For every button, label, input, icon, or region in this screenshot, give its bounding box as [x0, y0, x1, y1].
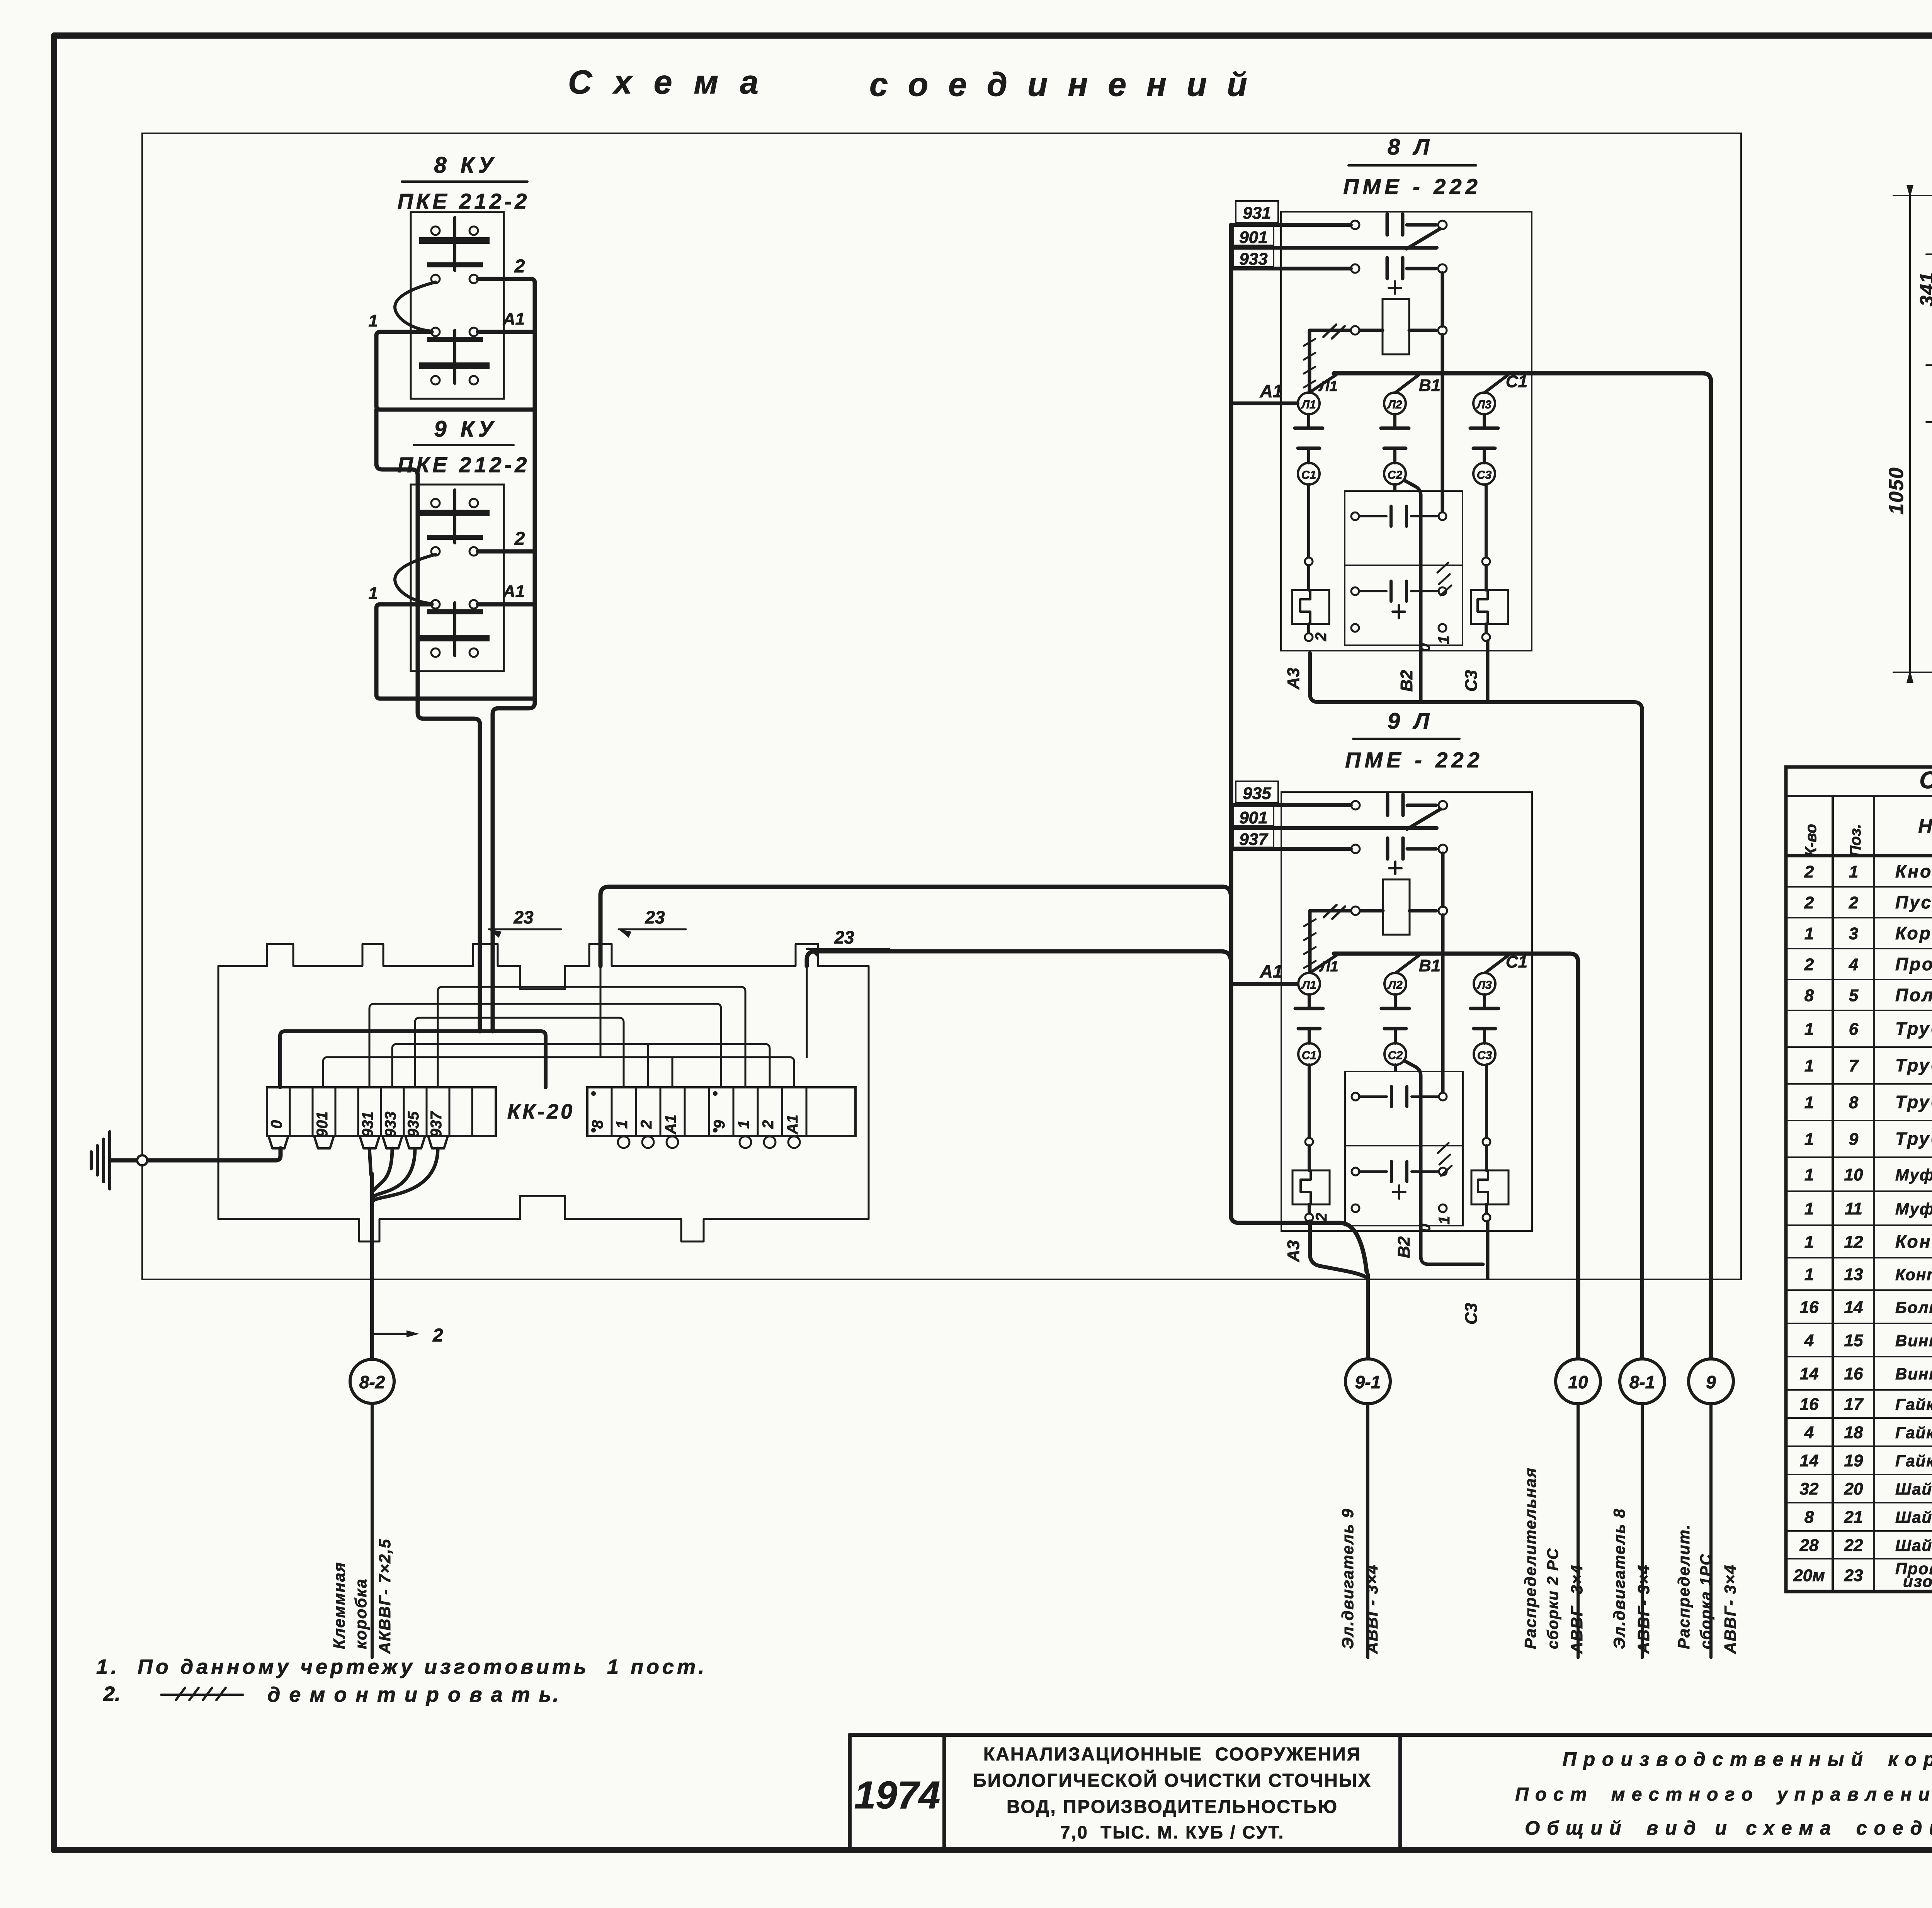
svg-text:3: 3: [1849, 924, 1858, 943]
svg-text:1050: 1050: [1885, 467, 1908, 515]
svg-text:7: 7: [1849, 1056, 1859, 1075]
svg-text:коробка: коробка: [352, 1578, 370, 1649]
svg-text:935: 935: [1243, 784, 1271, 803]
svg-text:ВОД, ПРОИЗВОДИТЕЛЬНОСТЬЮ: ВОД, ПРОИЗВОДИТЕЛЬНОСТЬЮ: [1007, 1797, 1338, 1817]
svg-text:0: 0: [268, 1120, 285, 1129]
svg-text:16: 16: [1800, 1395, 1819, 1414]
svg-text:4: 4: [1849, 955, 1858, 974]
svg-text:с о е д и н е н и й: с о е д и н е н и й: [869, 66, 1253, 103]
svg-text:341: 341: [1916, 272, 1932, 306]
svg-text:Труба: Труба: [1895, 1055, 1932, 1075]
svg-text:А3: А3: [1284, 1240, 1303, 1262]
svg-text:9: 9: [1849, 1130, 1859, 1149]
svg-text:937: 937: [428, 1111, 445, 1137]
svg-text:Эл.двигатель 8: Эл.двигатель 8: [1610, 1508, 1628, 1649]
svg-text:Муфта переходная Гост 8957-59: Муфта переходная Гост 8957-59: [1895, 1200, 1932, 1218]
svg-text:1: 1: [1804, 1165, 1814, 1184]
svg-text:Л1: Л1: [1319, 959, 1338, 975]
svg-text:1: 1: [1804, 1265, 1814, 1284]
svg-text:А1: А1: [784, 1114, 801, 1134]
svg-text:О б щ и й в и д и с х е: О б щ и й в и д и с х е м а с о е д и н …: [1525, 1817, 1932, 1839]
svg-text:ПМЕ - 222: ПМЕ - 222: [1345, 748, 1483, 772]
svg-text:2.: 2.: [103, 1682, 121, 1706]
svg-text:Клеммная: Клеммная: [330, 1562, 348, 1649]
svg-text:8-2: 8-2: [359, 1372, 385, 1392]
svg-text:А1: А1: [1260, 381, 1283, 401]
svg-text:Гайка М 5 ГОСТ 5915- 70: Гайка М 5 ГОСТ 5915- 70: [1895, 1452, 1932, 1470]
svg-text:14: 14: [1800, 1451, 1819, 1470]
svg-text:Контргайка ГОСТ 8961-59: Контргайка ГОСТ 8961-59: [1895, 1231, 1932, 1252]
svg-text:В2: В2: [1395, 1236, 1413, 1258]
svg-text:2: 2: [514, 256, 525, 277]
svg-text:19: 19: [1844, 1451, 1863, 1470]
svg-text:23: 23: [645, 907, 665, 927]
svg-text:С3: С3: [1462, 1303, 1481, 1325]
svg-text:1: 1: [369, 311, 378, 330]
svg-text:В1: В1: [1419, 956, 1440, 975]
svg-text:Эл.двигатель 9: Эл.двигатель 9: [1338, 1508, 1357, 1649]
svg-text:5: 5: [1849, 986, 1859, 1005]
svg-text:А3: А3: [1284, 668, 1303, 690]
svg-text:БИОЛОГИЧЕСКОЙ ОЧИСТКИ СТОЧНЫХ: БИОЛОГИЧЕСКОЙ ОЧИСТКИ СТОЧНЫХ: [973, 1770, 1372, 1791]
svg-text:АКВВГ- 7×2,5: АКВВГ- 7×2,5: [376, 1538, 394, 1654]
svg-text:Болт М 6 × 20 ГОСТ 7798- 70: Болт М 6 × 20 ГОСТ 7798- 70: [1895, 1298, 1932, 1316]
svg-text:Кнопка управления: Кнопка управления: [1895, 861, 1932, 881]
svg-text:С1: С1: [1301, 469, 1316, 481]
svg-text:С3: С3: [1477, 469, 1492, 481]
svg-text:933: 933: [1239, 250, 1267, 269]
svg-text:9: 9: [1706, 1372, 1716, 1392]
svg-text:Гайка М 6. ГОСТ 5915- 70: Гайка М 6. ГОСТ 5915- 70: [1895, 1395, 1932, 1413]
svg-text:935: 935: [405, 1111, 422, 1137]
svg-text:16: 16: [1844, 1364, 1863, 1383]
svg-text:2: 2: [760, 1120, 777, 1129]
svg-text:22: 22: [1844, 1536, 1863, 1555]
svg-text:4: 4: [1804, 1423, 1814, 1442]
svg-text:С п е ц и ф и к а ц и я: С п е ц и ф и к а ц и я: [1919, 767, 1932, 794]
svg-text:1. По данному чертежу изготов: 1. По данному чертежу изготовить 1 пост.: [96, 1655, 707, 1678]
svg-text:Труба: Труба: [1895, 1019, 1932, 1039]
svg-text:14: 14: [1800, 1364, 1819, 1383]
svg-text:933: 933: [382, 1112, 399, 1138]
svg-text:1: 1: [735, 1120, 752, 1129]
svg-text:14: 14: [1844, 1298, 1863, 1317]
svg-text:0: 0: [1416, 643, 1433, 652]
svg-text:АВВГ- 3×4: АВВГ- 3×4: [1634, 1564, 1653, 1654]
svg-text:1: 1: [1804, 1233, 1814, 1252]
svg-text:9-1: 9-1: [1355, 1372, 1381, 1392]
svg-text:С х е м а: С х е м а: [568, 64, 765, 101]
svg-text:2: 2: [1804, 862, 1814, 881]
svg-text:20: 20: [1844, 1479, 1863, 1498]
svg-text:28: 28: [1799, 1536, 1819, 1555]
svg-text:АВВГ- 3×4: АВВГ- 3×4: [1721, 1564, 1739, 1654]
svg-text:Винт М 5 × 16 ГОСТ 17473-72: Винт М 5 × 16 ГОСТ 17473-72: [1895, 1365, 1932, 1383]
svg-text:2: 2: [432, 1325, 443, 1346]
svg-text:1974: 1974: [854, 1774, 940, 1817]
svg-text:ПМЕ - 222: ПМЕ - 222: [1343, 174, 1481, 199]
svg-text:12: 12: [1844, 1233, 1863, 1252]
svg-text:Контргайка ГОСТ 8961- 59: Контргайка ГОСТ 8961- 59: [1895, 1265, 1932, 1284]
svg-text:13: 13: [1844, 1265, 1863, 1284]
svg-text:Полоса монтажная: Полоса монтажная: [1895, 985, 1932, 1005]
svg-text:С3: С3: [1462, 670, 1481, 692]
svg-text:15: 15: [1844, 1331, 1863, 1350]
svg-text:8: 8: [1804, 1508, 1814, 1527]
svg-text:П о с т м е с т н о г о: П о с т м е с т н о г о у п р а в л е н …: [1515, 1784, 1932, 1805]
svg-text:1: 1: [369, 584, 378, 603]
svg-text:С2: С2: [1388, 469, 1403, 481]
svg-text:901: 901: [314, 1112, 331, 1138]
svg-text:Шайба 6 ГОСТ 11371- 70: Шайба 6 ГОСТ 11371- 70: [1895, 1480, 1932, 1498]
svg-text:937: 937: [1239, 830, 1269, 849]
svg-text:В2: В2: [1397, 670, 1416, 692]
svg-text:1: 1: [1804, 1056, 1814, 1075]
svg-text:изолированный: изолированный: [1903, 1572, 1932, 1590]
svg-text:Н а и м е н о в а н и е: Н а и м е н о в а н и е: [1918, 815, 1932, 837]
svg-text:901: 901: [1239, 808, 1267, 827]
svg-text:6: 6: [1849, 1020, 1859, 1039]
svg-text:23: 23: [1844, 1566, 1863, 1585]
svg-text:2: 2: [1804, 955, 1814, 974]
svg-text:901: 901: [1239, 228, 1267, 247]
svg-text:В1: В1: [1419, 376, 1440, 395]
svg-text:АВВГ- 3×4: АВВГ- 3×4: [1363, 1564, 1381, 1654]
svg-text:Л1: Л1: [1318, 378, 1337, 395]
svg-text:А1: А1: [503, 309, 525, 328]
svg-text:8 Л: 8 Л: [1388, 134, 1433, 160]
svg-text:1: 1: [1435, 636, 1452, 644]
svg-text:Винт М 8 × 16 ГОСТ 17473-72: Винт М 8 × 16 ГОСТ 17473-72: [1895, 1332, 1932, 1350]
svg-text:32: 32: [1800, 1479, 1819, 1498]
svg-text:ПКЕ 212-2: ПКЕ 212-2: [398, 189, 530, 213]
svg-text:2: 2: [1804, 893, 1814, 912]
svg-text:1: 1: [1849, 862, 1858, 881]
svg-text:10: 10: [1568, 1372, 1588, 1392]
svg-text:2: 2: [1849, 893, 1859, 912]
svg-text:сборки 2 РС: сборки 2 РС: [1544, 1547, 1561, 1649]
svg-text:1: 1: [614, 1120, 631, 1129]
svg-text:8: 8: [1804, 986, 1814, 1005]
svg-text:А1: А1: [1260, 961, 1283, 981]
svg-text:АВВГ- 3×4: АВВГ- 3×4: [1568, 1564, 1586, 1654]
svg-text:23: 23: [513, 907, 534, 927]
svg-text:КК-20: КК-20: [507, 1100, 575, 1123]
svg-text:П р о и з в о д с т в е н н ы: П р о и з в о д с т в е н н ы й к о р п …: [1563, 1748, 1932, 1770]
svg-text:Шайба 5 ГОСТ 11371- 70: Шайба 5 ГОСТ 11371- 70: [1895, 1536, 1932, 1554]
svg-text:9 Л: 9 Л: [1388, 709, 1433, 734]
svg-text:Пускатель магнитный: Пускатель магнитный: [1895, 892, 1932, 912]
svg-text:8: 8: [1849, 1093, 1859, 1112]
svg-text:18: 18: [1844, 1423, 1863, 1442]
svg-text:Коробка клеммная: Коробка клеммная: [1895, 923, 1932, 943]
svg-text:Труба: Труба: [1895, 1129, 1932, 1149]
svg-text:Гайка М 8 ГОСТ 5915 - 70: Гайка М 8 ГОСТ 5915 - 70: [1895, 1423, 1932, 1442]
svg-text:А1: А1: [503, 582, 525, 601]
svg-text:Шайба 8 ГОСТ 11371- 70: Шайба 8 ГОСТ 11371- 70: [1895, 1508, 1932, 1526]
svg-text:Л3: Л3: [1476, 398, 1492, 411]
svg-text:11: 11: [1845, 1199, 1862, 1218]
svg-text:1: 1: [1804, 1020, 1814, 1039]
svg-text:1: 1: [1804, 1199, 1814, 1218]
svg-text:Труба: Труба: [1895, 1092, 1932, 1112]
svg-text:сборка 1РС: сборка 1РС: [1697, 1553, 1714, 1649]
svg-text:Распределительная: Распределительная: [1521, 1467, 1539, 1649]
svg-text:931: 931: [359, 1112, 376, 1138]
svg-text:4: 4: [1804, 1331, 1814, 1350]
svg-text:Л1: Л1: [1301, 398, 1316, 411]
svg-text:931: 931: [1243, 204, 1271, 223]
svg-text:А1: А1: [662, 1114, 679, 1134]
svg-text:Поз.: Поз.: [1847, 824, 1864, 857]
svg-text:2: 2: [514, 529, 525, 549]
svg-text:16: 16: [1800, 1298, 1819, 1317]
svg-text:20м: 20м: [1793, 1566, 1825, 1585]
svg-text:2: 2: [638, 1120, 655, 1129]
svg-text:Распределит.: Распределит.: [1675, 1524, 1693, 1649]
svg-text:8-1: 8-1: [1629, 1372, 1655, 1392]
svg-text:1: 1: [1804, 1093, 1814, 1112]
svg-text:17: 17: [1844, 1395, 1864, 1414]
svg-text:8: 8: [589, 1120, 606, 1129]
svg-text:9 КУ: 9 КУ: [434, 417, 497, 442]
svg-text:д е м о н т и р о в а т ь.: д е м о н т и р о в а т ь.: [267, 1683, 560, 1706]
svg-text:КАНАЛИЗАЦИОННЫЕ СООРУЖЕНИЯ: КАНАЛИЗАЦИОННЫЕ СООРУЖЕНИЯ: [983, 1744, 1361, 1765]
svg-text:Профиль монтажный: Профиль монтажный: [1895, 954, 1932, 974]
svg-text:Муфта переходная ГОСТ 8957 59: Муфта переходная ГОСТ 8957 59: [1895, 1166, 1932, 1184]
svg-text:9: 9: [711, 1120, 728, 1129]
svg-text:7,0 ТЫС. М. КУБ / СУТ.: 7,0 ТЫС. М. КУБ / СУТ.: [1060, 1822, 1284, 1842]
svg-text:2: 2: [1313, 633, 1330, 641]
svg-text:Л2: Л2: [1387, 398, 1402, 411]
svg-text:8 КУ: 8 КУ: [434, 153, 497, 178]
svg-text:К-во: К-во: [1803, 824, 1820, 857]
svg-text:1: 1: [1804, 1130, 1814, 1149]
svg-text:1: 1: [1804, 924, 1814, 943]
svg-text:23: 23: [834, 927, 854, 947]
svg-text:10: 10: [1844, 1165, 1863, 1184]
svg-text:21: 21: [1844, 1508, 1863, 1527]
